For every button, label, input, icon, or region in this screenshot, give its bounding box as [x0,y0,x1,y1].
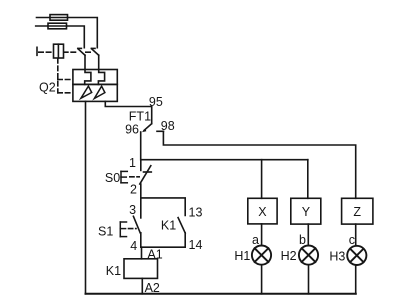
svg-text:c: c [349,233,355,247]
FT1 terminal 96 lead / wire to node 1 [140,132,142,160]
pushbutton S1 top lead [140,198,142,218]
S0 actuator dashed link [130,176,139,178]
thermal element pole 2 [98,70,104,85]
wire H1 to rail [261,265,263,294]
svg-text:H2: H2 [281,249,297,263]
pushbutton S0 top lead [140,160,142,171]
svg-text:Y: Y [302,205,311,219]
wire Y to lamp H2 [307,224,309,245]
svg-text:Z: Z [353,205,361,219]
S0 actuator [121,171,127,182]
wire phase L2 [36,26,85,48]
S0 blade [140,166,151,184]
svg-text:13: 13 [189,205,203,219]
S1 actuator [120,222,126,237]
breaker Q2 pole 2 contact [91,48,98,69]
wire junction to coil A1 [141,247,143,259]
svg-text:Q2: Q2 [39,81,56,95]
svg-text:S0: S0 [105,171,120,185]
FT1 terminal 98 tick [157,130,163,132]
breaker Q2 pole 1 contact [78,48,85,69]
box Z [342,198,373,224]
fuse FU2 [48,23,67,29]
contactor coil K1 [124,259,158,279]
magnetic release arrow pole 1 [81,86,92,98]
S0 bottom lead [140,184,142,198]
wire node 2 branch to contact K1 [141,198,185,216]
svg-text:H3: H3 [329,249,345,263]
S1 bottom lead [140,233,142,247]
wire X branch drop [261,160,263,199]
svg-text:4: 4 [130,239,137,253]
magnetic release arrow pole 2 [94,86,105,98]
svg-text:1: 1 [129,156,136,170]
FT1 terminal 95 lead [151,107,153,124]
wire H3 to rail [355,265,357,293]
svg-text:b: b [299,233,306,247]
lamp H1 [252,246,271,265]
wire Z to lamp H3 [355,224,357,245]
wire phase L1 [37,18,98,48]
bottom rail wire [86,293,356,295]
thermal element pole 1 [85,70,91,85]
svg-text:96: 96 [125,122,139,136]
svg-text:K1: K1 [106,264,121,278]
wire Y branch drop [307,160,309,199]
wire Q2 right output to FT1 [105,101,151,106]
wire H2 to rail [308,265,310,294]
svg-text:S1: S1 [98,225,113,239]
coil bottom lead A2 [141,278,143,293]
wire node 1 to X and Y branches [141,159,308,161]
box Y [291,198,321,224]
S1 actuator dashed link [129,228,137,230]
svg-text:X: X [258,205,267,219]
svg-text:K1: K1 [161,219,176,233]
contact K1 bottom lead [184,233,186,247]
Q2 magnetic release box [73,84,117,101]
S1 blade [133,216,140,233]
Q2 dashed trip linkage [58,59,73,93]
Q2 thermal release box [73,70,117,85]
box X [248,198,277,224]
wire Q2 left output down to bottom rail [85,101,87,293]
Q2 mechanism terminal [36,47,38,55]
svg-text:3: 3 [129,203,136,217]
Q2 release actuator box [54,44,64,58]
contact K1 blade [178,218,185,233]
svg-text:H1: H1 [234,249,250,263]
svg-text:a: a [252,233,259,247]
fuse FU1 [50,15,68,21]
lamp H3 [347,246,366,265]
Q2 mechanism dashed linkage [39,51,91,53]
wire X to lamp H1 [261,224,263,245]
S0 NC tick [144,171,152,173]
wire 98 to lamp box Z [163,131,355,198]
svg-text:14: 14 [189,238,203,252]
wire S1/K1 bottom junction [141,246,185,248]
lamp H2 [299,246,318,265]
thermal contact FT1 blade [144,124,152,131]
svg-text:2: 2 [130,182,137,196]
